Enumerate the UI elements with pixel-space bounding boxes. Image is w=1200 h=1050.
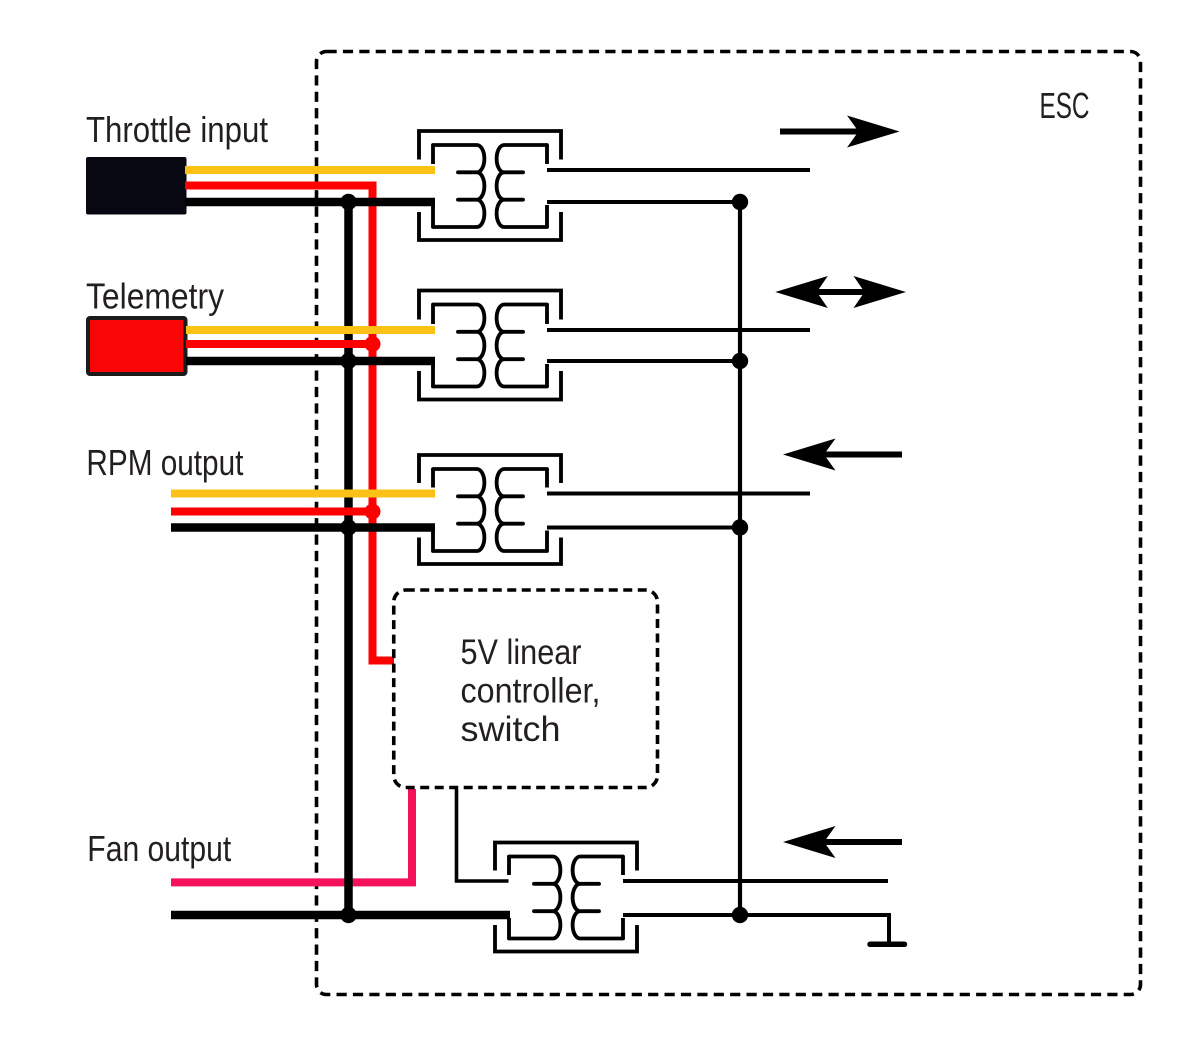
transformer T2 (telemetry) primary winding — [431, 305, 435, 387]
telemetry connector J2 — [88, 318, 186, 374]
svg-text:Fan output: Fan output — [87, 828, 231, 869]
transformer T1 (throttle) outer shield — [419, 131, 561, 160]
arrow: throttle signal direction (right) — [780, 129, 859, 135]
junction: telemetry gnd / bus — [340, 353, 356, 369]
ground symbol — [870, 942, 905, 948]
junction: T1 gnd / right bus — [732, 194, 748, 210]
junction: RPM red / red bus — [365, 504, 381, 520]
wire T1 secondary signal lead — [547, 168, 810, 172]
ground bus (vertical black) — [344, 202, 353, 915]
wire T4 secondary signal lead — [623, 879, 888, 883]
svg-text:controller,: controller, — [461, 672, 601, 711]
wire RPM +V (red) — [171, 508, 373, 516]
wire telemetry +V (red) — [186, 340, 373, 348]
junction: RPM gnd / bus — [340, 519, 356, 535]
transformer T4 (fan) secondary winding — [621, 857, 625, 939]
throttle connector J1 — [86, 157, 187, 215]
transformer T3 (RPM) outer shield — [419, 455, 561, 483]
arrow: fan direction (left) — [824, 839, 902, 845]
wire throttle +V (red) to 5V controller — [185, 186, 394, 661]
svg-text:ESC: ESC — [1040, 85, 1090, 126]
wire RPM ground (black) — [171, 523, 435, 532]
transformer T1 (throttle) primary winding — [431, 145, 435, 227]
junction: fan gnd / bus — [340, 907, 356, 923]
svg-text:Telemetry: Telemetry — [86, 276, 224, 317]
wire telemetry ground (black) — [186, 357, 435, 366]
svg-text:Throttle input: Throttle input — [86, 109, 268, 150]
arrow: RPM direction (left) — [824, 452, 902, 458]
5V linear controller, switch (dashed box U1) — [394, 590, 658, 788]
transformer T4 (fan) primary winding — [507, 857, 511, 939]
svg-text:RPM output: RPM output — [86, 442, 243, 483]
wire 5V controller to T4 primary — [457, 789, 509, 881]
arrow: telemetry bidirectional — [800, 289, 880, 295]
junction: throttle gnd / bus — [340, 194, 356, 210]
transformer T2 (telemetry) outer shield — [419, 291, 561, 320]
isolated ground bus (right vertical) — [738, 202, 742, 915]
wire fan output (pink) from 5V controller — [171, 789, 412, 882]
svg-text:5V linear: 5V linear — [461, 633, 582, 672]
wire throttle ground (black) — [185, 198, 435, 207]
transformer T3 (RPM) primary winding — [431, 469, 435, 551]
wire throttle signal (yellow) — [185, 166, 435, 174]
junction: T3 gnd / right bus — [732, 519, 748, 535]
wire T1 secondary gnd lead — [547, 200, 740, 204]
wire T3 secondary gnd lead — [547, 526, 740, 530]
transformer T1 (throttle) secondary winding — [545, 145, 549, 227]
ESC enclosure (dashed border) — [317, 52, 1141, 995]
wire T3 secondary signal lead — [547, 492, 810, 496]
transformer T2 (telemetry) secondary winding — [545, 305, 549, 387]
wire telemetry signal (yellow) — [186, 326, 435, 334]
transformer T4 (fan) outer shield — [495, 843, 637, 871]
transformer T3 (RPM) secondary winding — [545, 469, 549, 551]
wire RPM signal (yellow) — [171, 490, 435, 498]
wire T4 secondary gnd lead to ground — [623, 915, 889, 942]
junction: T4 gnd / right bus — [732, 907, 748, 923]
svg-text:switch: switch — [461, 710, 561, 749]
wire T2 secondary gnd lead — [547, 359, 740, 363]
wire T2 secondary signal lead — [547, 328, 810, 332]
junction: T2 gnd / right bus — [732, 353, 748, 369]
junction: telemetry red / red bus — [365, 336, 381, 352]
wire fan ground (black) — [171, 911, 510, 920]
